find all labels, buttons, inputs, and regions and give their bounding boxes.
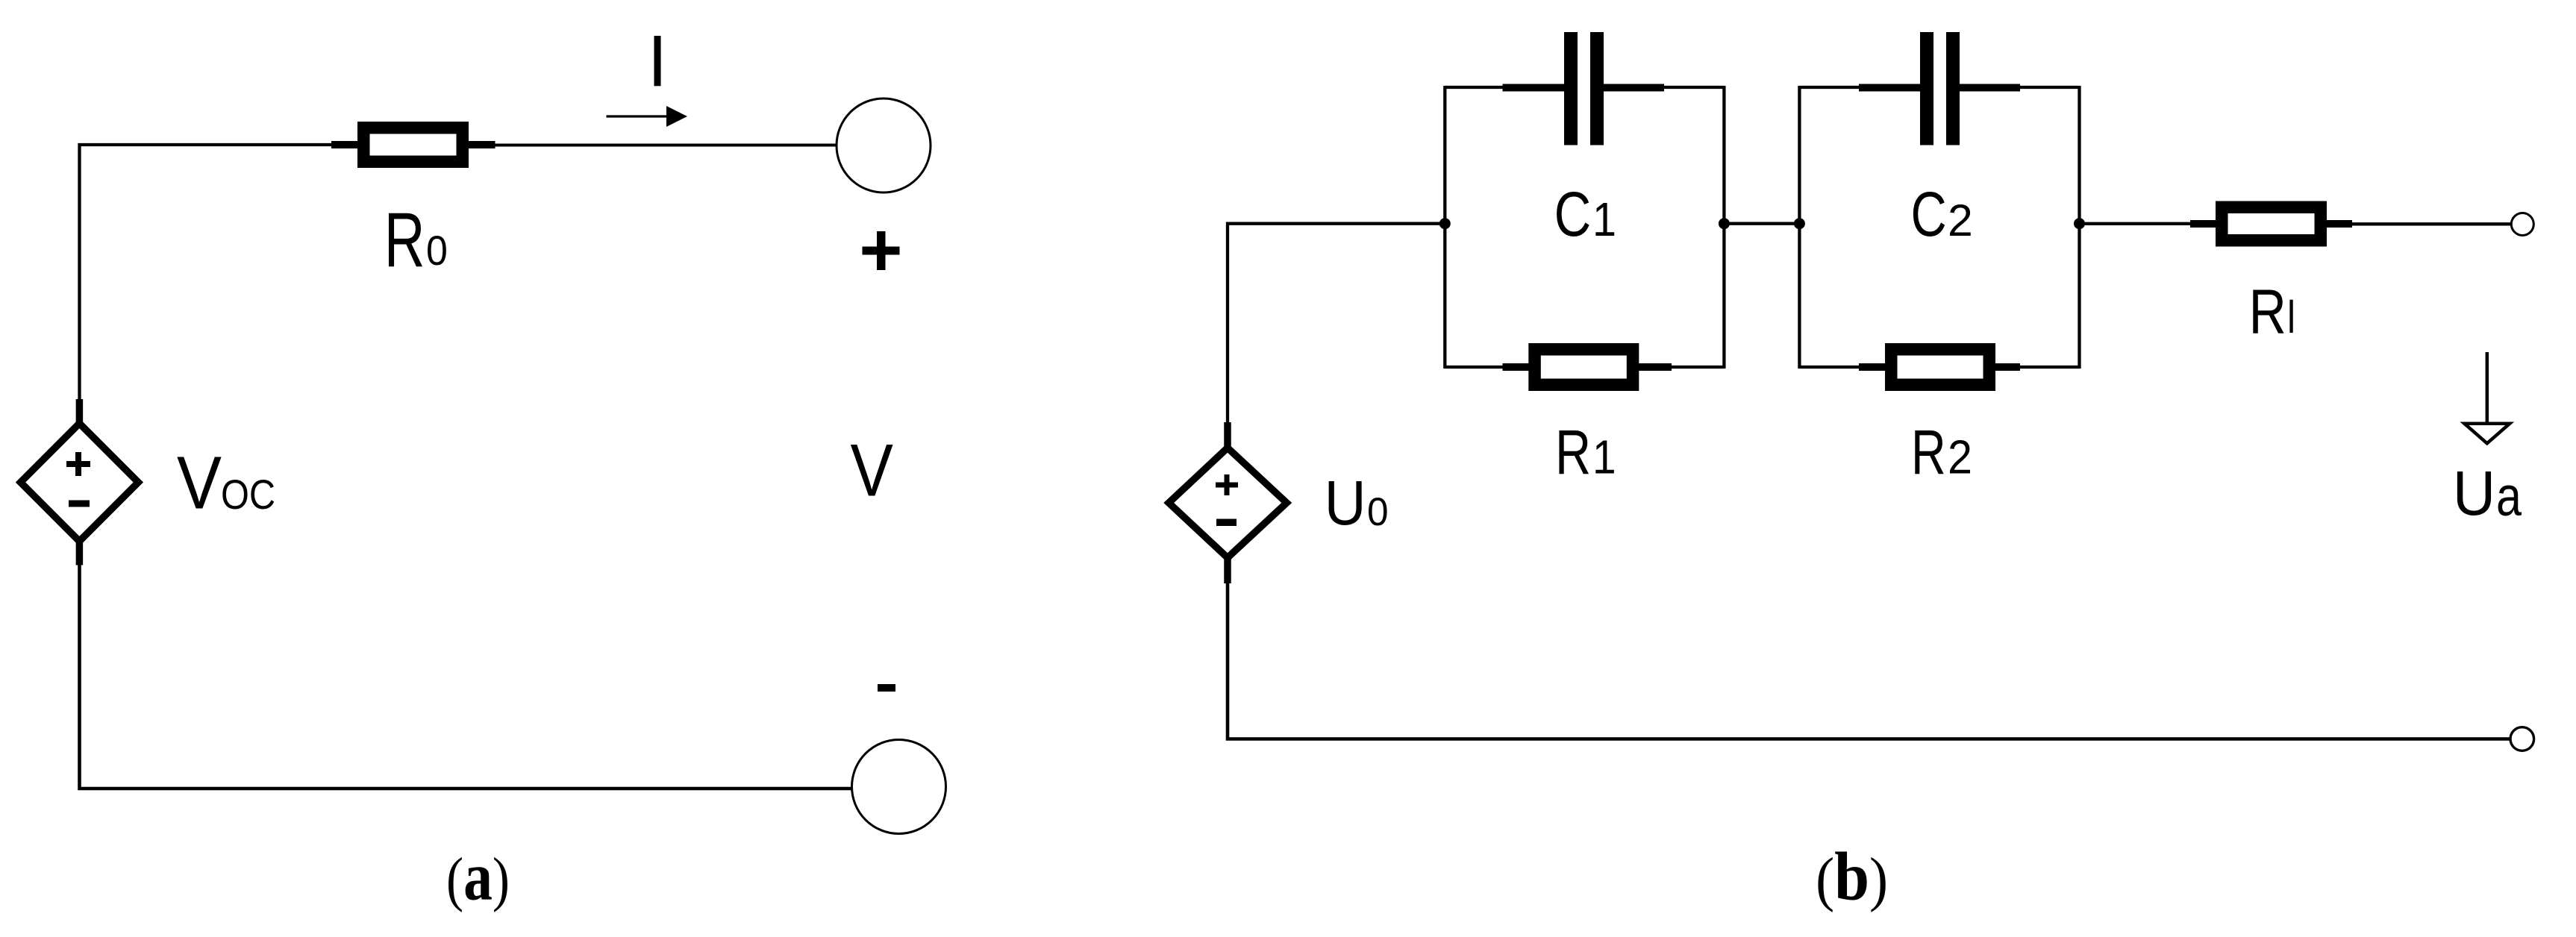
svg-text:0: 0 (426, 227, 448, 274)
arrow Ua (output voltage) (2464, 352, 2510, 443)
resistor R0 (331, 128, 495, 162)
svg-text:a: a (2496, 465, 2522, 527)
wire: node B to node C (1724, 222, 1799, 225)
wire: Rl to output terminal (2352, 222, 2511, 225)
wire: R0 to top terminal (495, 144, 837, 147)
svg-text:R: R (384, 196, 425, 283)
resistor R2 (1859, 349, 2020, 385)
node C junction dot (1794, 218, 1805, 229)
wire: bottom rail of circuit (a) (80, 565, 852, 789)
svg-text:C: C (1554, 179, 1592, 249)
label C1 (1554, 179, 1616, 249)
wire: RC pair 1 frame (1445, 86, 1724, 369)
label C2 (1911, 179, 1973, 249)
current arrow I (607, 106, 688, 127)
label Voc (177, 442, 275, 525)
voltage source U0 (diamond) (1169, 422, 1287, 583)
capacitor C1 (1503, 32, 1665, 145)
label Ua (2453, 458, 2522, 528)
wire: U0 up to node A (1228, 224, 1445, 422)
svg-text:(a): (a) (446, 839, 510, 915)
wire: node D to resistor Rl (2080, 222, 2192, 225)
svg-text:1: 1 (1592, 430, 1616, 484)
label I (654, 36, 661, 86)
svg-text:V: V (177, 442, 222, 525)
terminal circle V- (852, 740, 946, 834)
voltage source Voc (diamond) (21, 399, 139, 565)
svg-text:2: 2 (1948, 430, 1972, 484)
label Rl (2249, 276, 2293, 346)
svg-text:C: C (1911, 179, 1947, 249)
svg-text:V: V (851, 429, 893, 512)
svg-text:R: R (2249, 276, 2286, 346)
svg-text:R: R (1911, 417, 1946, 487)
svg-text:OC: OC (221, 471, 275, 518)
resistor Rl (2190, 207, 2352, 241)
wire: left vertical and top rail of circuit (a) (80, 145, 332, 399)
node B junction dot (1719, 218, 1730, 229)
label U0 (1325, 468, 1389, 538)
svg-text:U: U (2453, 458, 2495, 528)
svg-text:(b): (b) (1816, 839, 1888, 915)
label R1 (1555, 417, 1616, 487)
svg-text:0: 0 (1367, 490, 1389, 534)
label R0 (384, 196, 448, 283)
capacitor C2 (1859, 32, 2020, 145)
minus mark at V- (878, 684, 895, 692)
node D junction dot (2074, 218, 2085, 229)
terminal circle V+ (837, 98, 931, 192)
svg-text:R: R (1555, 417, 1591, 487)
wire: RC pair 2 frame (1799, 86, 2079, 369)
terminal circle output + (2511, 213, 2533, 236)
svg-text:U: U (1325, 468, 1366, 538)
node A junction dot (1439, 218, 1451, 229)
wire: bottom rail of circuit (b) (1228, 583, 2510, 739)
svg-text:1: 1 (1592, 192, 1616, 246)
plus mark at V+ (863, 231, 900, 270)
terminal circle output - (2510, 727, 2534, 751)
resistor R1 (1503, 349, 1672, 385)
svg-text:2: 2 (1948, 195, 1973, 245)
label R2 (1911, 417, 1972, 487)
